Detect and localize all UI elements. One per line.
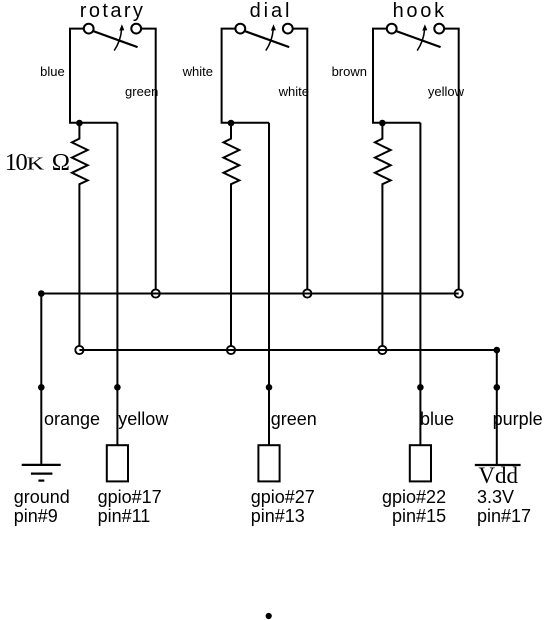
wire: SW1 rotary right terminal down to upper bus (141, 29, 156, 290)
connector pin gpio#27 (258, 445, 279, 481)
node dot on gpio#17 wire (114, 384, 121, 391)
svg-text:blue: blue (420, 409, 454, 429)
wire: ground drop (40, 294, 42, 465)
svg-text:gpio#22: gpio#22 (382, 487, 446, 507)
wire: SW3 hook left terminal down to junction row (373, 29, 420, 123)
junction circle: resistor R2 bottom on lower (Vdd) bus (227, 346, 235, 354)
svg-text:ground: ground (14, 487, 70, 507)
junction dot: resistor R1 top tap (76, 120, 83, 127)
wire: gpio#27 line from junction row to connector (268, 123, 270, 445)
svg-text:K: K (27, 154, 44, 174)
svg-text:orange: orange (44, 409, 100, 429)
switch SW1 rotary (84, 24, 141, 51)
wire: SW3 hook right terminal down to upper bus (444, 29, 459, 290)
svg-text:rotary: rotary (80, 0, 146, 22)
svg-text:gpio#17: gpio#17 (98, 487, 162, 507)
svg-text:dial: dial (250, 0, 293, 22)
svg-text:white: white (278, 84, 309, 99)
resistor R1 10K (72, 123, 88, 346)
svg-text:blue: blue (40, 64, 65, 79)
svg-text:pin#17: pin#17 (477, 506, 531, 526)
svg-text:white: white (182, 64, 213, 79)
junction dot: resistor R3 top tap (379, 120, 386, 127)
node dot: Vdd bus right end (494, 347, 501, 354)
wire: Vdd drop (496, 350, 498, 464)
wire: gpio#22 line from junction row to connector (419, 123, 421, 445)
stray node dot bottom center (266, 613, 272, 619)
wire: SW1 rotary left terminal down to junction row (70, 29, 117, 123)
svg-text:brown: brown (332, 64, 367, 79)
svg-text:pin#11: pin#11 (98, 506, 151, 526)
connector pin gpio#17 (107, 445, 128, 481)
wire: SW2 dial right terminal down to upper bus (293, 29, 308, 290)
svg-text:hook: hook (393, 0, 447, 22)
svg-text:pin#15: pin#15 (392, 506, 446, 526)
svg-text:10: 10 (5, 149, 28, 176)
wire: upper ground bus (41, 293, 458, 295)
wire: SW2 dial left terminal down to junction row (222, 29, 269, 123)
junction circle: SW2 dial right terminal on upper (ground) bus (303, 289, 311, 297)
ground symbol (22, 465, 61, 481)
node dot on gpio#22 wire (417, 384, 424, 391)
junction dot: resistor R2 top tap (228, 120, 235, 127)
svg-text:3.3V: 3.3V (477, 487, 514, 507)
svg-text:pin#9: pin#9 (14, 506, 58, 526)
switch SW3 hook (387, 24, 444, 51)
junction circle: resistor R3 bottom on lower (Vdd) bus (378, 346, 386, 354)
wire: gpio#17 line from junction row to connector (116, 123, 118, 445)
svg-text:green: green (125, 84, 158, 99)
junction circle: resistor R1 bottom on lower (Vdd) bus (75, 346, 83, 354)
node dot on Vdd wire (494, 384, 501, 391)
connector pin gpio#22 (410, 445, 431, 481)
node dot: ground bus left end (38, 290, 45, 297)
power symbol Vdd (475, 463, 521, 488)
svg-text:gpio#27: gpio#27 (251, 487, 315, 507)
resistor R3 10K (375, 123, 391, 346)
node dot on ground wire (38, 384, 45, 391)
junction circle: SW3 hook right terminal on upper (ground) bus (455, 289, 463, 297)
wire: lower Vdd bus (79, 349, 496, 351)
node dot on gpio#27 wire (266, 384, 273, 391)
junction circle: SW1 rotary right terminal on upper (ground) bus (152, 289, 160, 297)
svg-text:purple: purple (493, 409, 543, 429)
svg-text:green: green (271, 409, 317, 429)
svg-text:yellow: yellow (118, 409, 169, 429)
switch SW2 dial (235, 24, 292, 51)
svg-text:Vdd: Vdd (478, 463, 518, 488)
svg-text:pin#13: pin#13 (251, 506, 305, 526)
resistor R2 10K (224, 123, 240, 346)
svg-text:Ω: Ω (52, 149, 70, 176)
